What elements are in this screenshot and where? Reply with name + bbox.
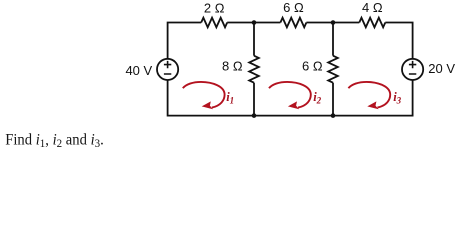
svg-text:i1: i1 [226,90,234,106]
wire: left branch bottom and bottom-left rail [168,80,254,115]
wire: top-right corner down to 20 V source [385,23,412,59]
wire: 8 ohm resistor down to node C [253,83,255,116]
resistor 6 ohm (top middle, horizontal zigzag) [280,18,306,28]
node D (bottom junction dot) [331,113,336,118]
svg-text:6 Ω: 6 Ω [302,58,323,73]
node C (bottom junction dot) [252,113,257,118]
mesh current arrow i2 (clockwise loop arrow) [269,82,311,109]
resistor 4 ohm (top right, horizontal zigzag) [359,18,385,28]
wire: top-left corner (left branch top to 2-ohm lead) [168,23,202,59]
wire: bottom-right rail up to 20 V source [333,80,413,115]
caption: Find i1, i2 and i3. [5,131,104,151]
wire: node A down to 8 ohm resistor [253,23,255,56]
resistor 8 ohm (vertical zigzag) [249,56,259,83]
voltage source 40 V (left, + on top) [157,59,178,80]
voltage source 20 V (right, + on top) [402,59,423,80]
resistor 6 ohm (middle vertical zigzag) [328,56,338,83]
mesh current arrow i3 (clockwise loop arrow) [348,82,390,109]
resistor 2 ohm (top left, horizontal zigzag) [201,18,227,28]
svg-text:4 Ω: 4 Ω [362,0,383,15]
svg-text:i3: i3 [393,90,401,106]
node A (top junction dot) [252,20,257,25]
node B (top junction dot) [331,20,336,25]
svg-text:6 Ω: 6 Ω [283,0,304,15]
svg-text:40 V: 40 V [125,63,152,78]
wire: bottom rail between node C and node D [254,115,333,117]
mesh current arrow i1 (clockwise loop arrow) [183,82,225,109]
svg-text:2 Ω: 2 Ω [204,1,225,16]
svg-text:Find i1, i2 and i3.: Find i1, i2 and i3. [5,131,104,151]
wire: middle 6 ohm resistor down to node D [332,83,334,116]
wire: top rail between 6 ohm and 4 ohm (through node B) [306,22,359,24]
wire: top rail between 2 ohm and 6 ohm (through node A) [227,22,280,24]
svg-text:i2: i2 [313,90,321,106]
wire: node B down to 6 ohm resistor [332,23,334,56]
svg-text:20 V: 20 V [428,61,455,76]
svg-text:8 Ω: 8 Ω [222,58,243,73]
